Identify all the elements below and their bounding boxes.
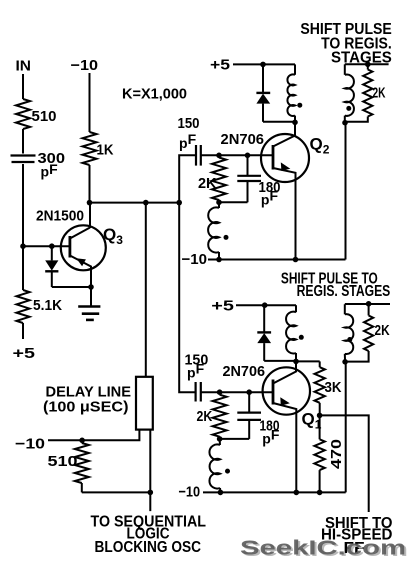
resistor 5.1K [17,290,30,323]
capacitor 150 pF (top) [196,145,201,166]
node base-left junction [20,243,26,249]
diode D2 [256,64,270,121]
node 2K tap (bottom) [217,389,223,395]
svg-text:REGIS. STAGES: REGIS. STAGES [297,283,391,300]
label pF (bottom C150) [187,361,205,381]
wire Q3 collector [89,203,91,228]
svg-text:2K: 2K [197,408,213,425]
diode CR1 (base clamp) [45,246,58,287]
node emitter Q1 junction [294,490,300,496]
label -10 (mid left) [15,436,45,453]
wire secondary return (bottom) [345,362,347,492]
label 510 [32,108,57,125]
svg-text:SeekIC.com: SeekIC.com [240,537,406,560]
wire -10 row (top) [208,259,346,261]
label 470 (rotated) [328,439,345,469]
node 2K tap (top secondary) [365,62,371,68]
label -10 (bottom circuit) [179,484,201,501]
node collector junction Q2 [292,120,298,126]
node 470 bottom junction [317,490,323,496]
wire +5 rail (bottom) [236,304,296,306]
label BLOCKING OSC [95,539,202,556]
node emitter Q2 junction [293,257,299,263]
label SHIFT TO [325,515,393,532]
svg-text:−10: −10 [179,484,201,501]
resistor 510 (input) [16,99,30,129]
watermark SeekIC.com [240,537,408,562]
wire diode to emitter [52,286,91,288]
node -10 label (top) [71,57,99,74]
wire output to hi-speed FF [320,415,369,512]
svg-text:2N1500: 2N1500 [36,208,84,225]
node base winding bottom (bottom) [218,490,224,496]
transistor Q2 circle [261,134,309,182]
node 180pF tap (top) [245,153,251,159]
transformer T1 secondary coil [345,304,354,362]
svg-text:Q3: Q3 [103,225,123,247]
svg-text:2K: 2K [375,322,390,339]
svg-text:1K: 1K [97,142,114,159]
wire 510 to output node [82,491,151,493]
node diode tap [49,243,55,249]
label 5.1K [33,297,62,314]
wire C150 to base Q2 [201,154,273,156]
svg-text:2K: 2K [373,85,386,102]
node 2K tap (top) [216,153,222,159]
transistor Q1 base bar [272,380,275,405]
label 2N1500 [36,208,84,225]
transformer T2 secondary coil [345,64,354,122]
ground [78,287,100,320]
svg-text:−10: −10 [15,436,45,453]
node 2K tap (bottom secondary) [366,301,372,307]
wire C150 to base Q1 [201,391,273,393]
svg-text:pF: pF [41,161,59,180]
label 2K (top base) [198,175,217,192]
capacitor 150 pF (bottom) [196,382,201,402]
transistor Q1 circle [263,367,310,414]
label +5 (left) [13,345,36,362]
label -10 (top circuit) [182,251,208,268]
wire D1 to collector node [264,360,296,362]
wire 5.1K to +5 [22,323,24,339]
svg-text:470: 470 [328,439,345,469]
transistor Q3 circle [61,225,106,270]
node base winding bottom [216,257,222,263]
label pF (bottom C180) [262,427,280,447]
transformer T2 primary coil [287,64,295,122]
transistor Q3 emitter arrow (PNP) [76,258,86,266]
node IN label [16,58,32,75]
transistor Q2 collector line [273,123,295,147]
transistor Q2 emitter arrow (NPN) [281,162,291,171]
label 1K [97,142,114,159]
wire delay right lead [149,430,151,512]
svg-text:pF: pF [179,131,197,151]
label pF (top C180) [261,188,279,208]
label 150 (top) [178,115,200,132]
label TO REGIS. [321,36,392,53]
wire collector Q2 [294,122,296,136]
wire left rail to 5.1K [22,246,24,290]
node collector junction Q1 [293,359,299,365]
wire 180pF to 2K bottom (bottom) [220,438,250,440]
delay line DL1 box [136,377,153,430]
transistor Q3 base bar [69,236,72,258]
svg-text:−10: −10 [182,251,208,268]
label 2N706 (Q1) [223,363,266,380]
node 2K bottom junction (bottom) [217,436,223,442]
label REGIS. STAGES (bottom) [297,283,391,300]
svg-text:3K: 3K [325,379,342,396]
node emitter junction [88,284,94,290]
node delay tap [143,200,149,206]
node diode D2 tap [260,62,266,68]
wire D2 to collector node [263,121,295,123]
node right tap [176,200,182,206]
wire tap down to C150 (bottom) [179,203,195,393]
transformer T1 primary coil [286,305,296,361]
diode D1 [257,305,271,361]
label pF (top C150) [179,131,197,151]
transistor Q1 emitter arrow (NPN) [280,397,290,406]
svg-text:2K: 2K [198,175,217,192]
svg-text:510: 510 [32,108,57,125]
capacitor 180 pF (bottom) [237,392,261,439]
wire -10 down [89,73,91,132]
svg-text:(100 μSEC): (100 μSEC) [43,399,129,416]
wire C300 to base node [22,164,24,246]
label Q2 [310,135,330,157]
wire node row to delay line [145,203,147,377]
node T2 primary polarity dot [297,103,302,108]
svg-text:IN: IN [16,58,32,75]
wire tap up to C150 (top) [179,155,196,202]
node collector junction [87,200,93,206]
label SHIFT PULSE (top right) [300,21,392,38]
label LOGIC [127,526,170,543]
resistor 470 [314,415,324,492]
wire -10 row (bottom) [203,491,346,493]
label STAGES [331,49,392,66]
svg-text:+5: +5 [210,57,230,74]
wire +5 rail (top) [233,63,295,65]
wire 1K to node row [89,165,91,203]
label Q3 [103,225,123,247]
node T1 base winding polarity dot [225,469,230,474]
label 180 (bottom) [260,418,280,435]
node T2 secondary polarity dot [346,106,351,111]
svg-text:−10: −10 [71,57,99,74]
wire 510 to C 300pF [22,129,24,154]
svg-text:+5: +5 [13,345,36,362]
wire collector branch to 3K [296,360,320,362]
capacitor 300 pF [11,156,36,163]
wire output row (bottom) [345,303,390,305]
label +5 (bottom circuit) [211,298,234,315]
node T2 secondary bottom [342,120,348,126]
svg-text:2N706: 2N706 [221,131,265,148]
node T2 base winding polarity dot [224,235,229,240]
resistor 3K [315,361,325,415]
capacitor 180 pF (top) [237,155,261,202]
label 2N706 (Q2) [221,131,265,148]
wire node row [90,202,180,204]
node T1 primary polarity dot [299,335,304,340]
label 510 (lower) [48,453,78,470]
node diode D1 tap [262,302,268,308]
label 2K (bottom base) [197,408,213,425]
transistor Q2 base bar [272,145,275,170]
label Q1 [302,410,322,432]
label TO SEQUENTIAL [91,513,207,530]
label FF [344,540,365,557]
node T1 secondary polarity dot [347,337,352,342]
transistor Q3 emitter line [70,256,91,288]
svg-text:150: 150 [178,115,200,132]
svg-text:510: 510 [48,453,78,470]
label 2K (bottom secondary) [375,322,390,339]
resistor 1K [83,132,97,165]
label HI-SPEED [321,526,393,543]
label 180 (top) [259,179,281,196]
wire IN down [22,74,24,99]
transistor Q1 emitter line [273,403,296,492]
transformer T2 base winding [208,202,219,259]
svg-text:Q2: Q2 [310,135,330,157]
wire secondary return (top) [345,123,347,260]
label 150 (bottom) [185,352,209,369]
node 3K-470 output junction [317,413,323,419]
wire Q3 base [23,245,70,247]
svg-text:2N706: 2N706 [223,363,266,380]
label 3K [325,379,342,396]
resistor 2K (top secondary) [345,64,372,121]
label K=X1,000 [122,86,187,103]
transformer T1 base winding [209,439,220,493]
node 180pF tap (bottom) [246,389,252,395]
label 300 pF [38,150,66,180]
node delay output junction [148,490,154,496]
svg-text:BLOCKING OSC: BLOCKING OSC [95,539,202,556]
node T1 secondary bottom [342,359,348,365]
svg-text:K=X1,000: K=X1,000 [122,86,187,103]
svg-text:+5: +5 [211,298,234,315]
svg-text:5.1K: 5.1K [33,297,62,314]
transistor Q2 emitter line [273,168,296,260]
label (100 uSEC) [43,399,129,416]
resistor 2K (top base) [212,158,226,201]
node 2K bottom junction (top) [216,200,222,206]
label +5 (top circuit) [210,57,230,74]
node 510 tap [79,438,85,444]
label 2K (top secondary) [373,85,386,102]
label DELAY LINE [46,384,132,401]
label SHIFT PULSE TO (bottom) [281,270,378,287]
wire 180pF to 2K bottom [219,201,248,203]
wire output row (top) [345,63,389,65]
resistor 510 (delay term) [75,443,89,492]
resistor 2K (bottom secondary) [345,304,373,362]
wire delay left lead [48,430,139,441]
resistor 2K (bottom base) [213,395,227,437]
transistor Q1 collector line [273,361,296,383]
transistor Q3 collector line [70,228,90,239]
